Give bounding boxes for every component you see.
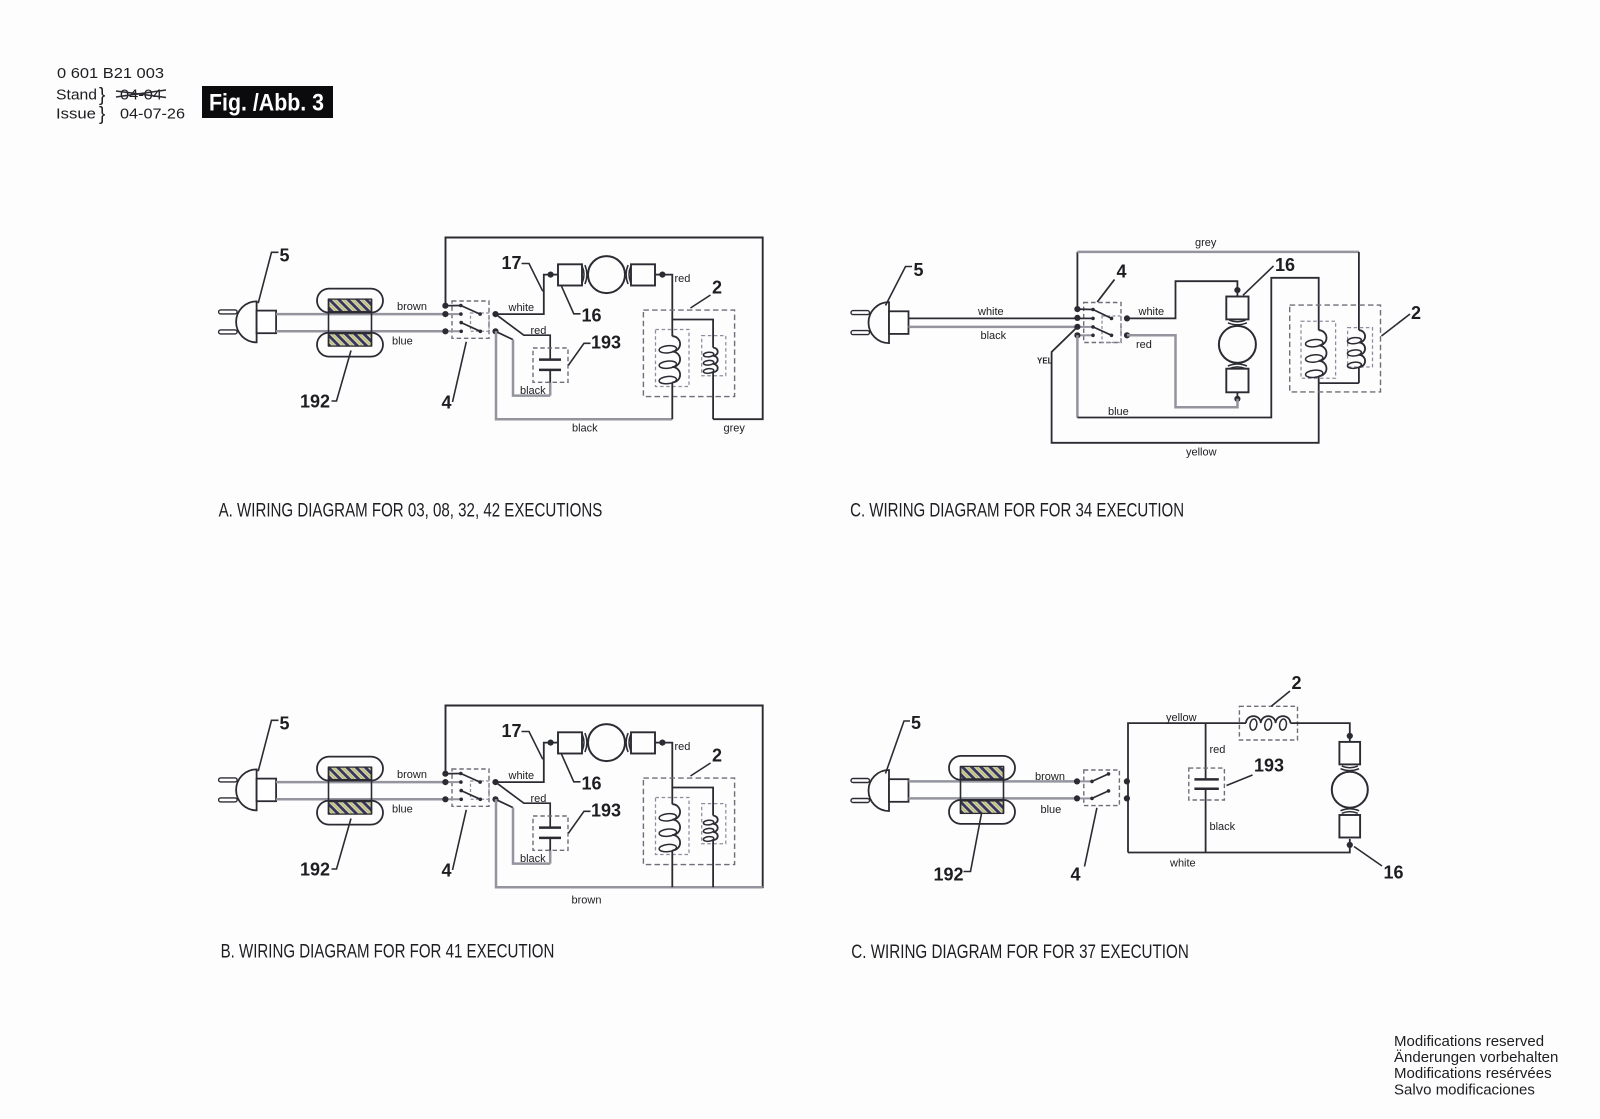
svg-text:brown: brown: [397, 769, 427, 781]
svg-text:0 601 B21 003: 0 601 B21 003: [57, 65, 164, 82]
svg-text:white: white: [1138, 306, 1165, 318]
svg-text:red: red: [531, 325, 547, 337]
svg-text:black: black: [981, 330, 1007, 342]
svg-text:16: 16: [582, 306, 602, 326]
svg-text:2: 2: [1411, 303, 1421, 323]
svg-text:Änderungen vorbehalten: Änderungen vorbehalten: [1394, 1049, 1558, 1066]
svg-text:193: 193: [591, 333, 621, 353]
svg-text:red: red: [1210, 744, 1226, 756]
svg-text:17: 17: [502, 253, 522, 273]
svg-text:192: 192: [934, 865, 964, 885]
svg-text:white: white: [1169, 857, 1196, 869]
svg-text:white: white: [977, 306, 1004, 318]
svg-text:red: red: [675, 273, 691, 285]
svg-text:red: red: [531, 793, 547, 805]
svg-text:grey: grey: [1195, 237, 1217, 249]
svg-text:Fig. /Abb. 3: Fig. /Abb. 3: [209, 90, 324, 117]
svg-text:C. WIRING DIAGRAM FOR FOR 34 E: C. WIRING DIAGRAM FOR FOR 34 EXECUTION: [850, 501, 1184, 522]
svg-text:brown: brown: [1035, 771, 1065, 783]
svg-text:YEL: YEL: [1037, 357, 1053, 366]
svg-text:Modifications resérvées: Modifications resérvées: [1394, 1065, 1552, 1082]
svg-text:16: 16: [582, 774, 602, 794]
svg-text:4: 4: [442, 393, 452, 413]
svg-text:4: 4: [442, 861, 452, 881]
svg-text:yellow: yellow: [1166, 712, 1197, 724]
svg-text:black: black: [572, 423, 598, 435]
svg-text:yellow: yellow: [1186, 447, 1217, 459]
svg-text:5: 5: [911, 713, 921, 733]
svg-text:5: 5: [280, 714, 290, 734]
svg-text:black: black: [520, 385, 546, 397]
svg-text:16: 16: [1384, 863, 1404, 883]
svg-text:17: 17: [502, 721, 522, 741]
svg-text:A. WIRING DIAGRAM FOR 03, 08,: A. WIRING DIAGRAM FOR 03, 08, 32, 42 EXE…: [219, 501, 603, 522]
svg-text:blue: blue: [392, 335, 413, 347]
svg-text:192: 192: [300, 860, 330, 880]
svg-text:193: 193: [591, 801, 621, 821]
svg-text:grey: grey: [724, 423, 746, 435]
svg-text:2: 2: [1292, 673, 1302, 693]
svg-text:black: black: [1210, 821, 1236, 833]
svg-text:blue: blue: [1041, 804, 1062, 816]
svg-text:4: 4: [1071, 865, 1081, 885]
svg-text:Salvo modificaciones: Salvo modificaciones: [1394, 1081, 1535, 1098]
svg-text:B. WIRING DIAGRAM FOR FOR 41 E: B. WIRING DIAGRAM FOR FOR 41 EXECUTION: [221, 942, 555, 963]
svg-text:black: black: [520, 853, 546, 865]
svg-text:2: 2: [712, 746, 722, 766]
svg-text:5: 5: [280, 246, 290, 266]
svg-text:193: 193: [1254, 756, 1284, 776]
svg-text:C. WIRING DIAGRAM FOR FOR 37 E: C. WIRING DIAGRAM FOR FOR 37 EXECUTION: [851, 942, 1189, 963]
svg-text:5: 5: [914, 260, 924, 280]
svg-text:blue: blue: [392, 803, 413, 815]
svg-text:04-07-26: 04-07-26: [120, 106, 185, 123]
svg-text:4: 4: [1117, 262, 1127, 282]
svg-text:}: }: [99, 85, 105, 106]
svg-text:blue: blue: [1108, 406, 1129, 418]
svg-text:brown: brown: [572, 895, 602, 907]
svg-text:Modifications reserved: Modifications reserved: [1394, 1033, 1544, 1050]
svg-text:16: 16: [1275, 255, 1295, 275]
svg-text:192: 192: [300, 392, 330, 412]
svg-text:red: red: [1136, 339, 1152, 351]
svg-text:Issue: Issue: [56, 106, 96, 123]
svg-text:red: red: [675, 741, 691, 753]
svg-text:white: white: [508, 302, 535, 314]
svg-text:Stand: Stand: [56, 87, 97, 104]
svg-text:2: 2: [712, 278, 722, 298]
svg-text:white: white: [508, 770, 535, 782]
svg-text:}: }: [99, 104, 105, 125]
svg-text:brown: brown: [397, 301, 427, 313]
